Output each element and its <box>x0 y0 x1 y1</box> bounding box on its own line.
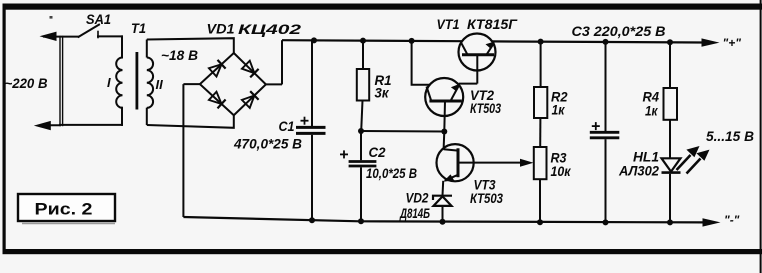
svg-text:II: II <box>156 77 164 92</box>
svg-text:T1: T1 <box>131 20 146 36</box>
svg-text:470,0*25 В: 470,0*25 В <box>233 137 302 152</box>
svg-text:АЛ302: АЛ302 <box>618 163 659 179</box>
svg-text:5...15 В: 5...15 В <box>706 129 754 144</box>
svg-text:Рис. 2: Рис. 2 <box>35 200 93 219</box>
svg-text:C1: C1 <box>279 118 295 134</box>
svg-text:~220 В: ~220 В <box>5 76 48 91</box>
svg-text:VD1: VD1 <box>207 21 235 37</box>
svg-text:Д814Б: Д814Б <box>399 205 430 221</box>
svg-text:~18 В: ~18 В <box>161 48 198 63</box>
svg-text:VD2: VD2 <box>406 190 429 206</box>
svg-text:C2: C2 <box>369 144 386 160</box>
svg-text:10,0*25 В: 10,0*25 В <box>366 166 417 181</box>
svg-text:1к: 1к <box>552 102 566 118</box>
svg-text:I: I <box>107 75 111 90</box>
svg-text:С3 220,0*25 В: С3 220,0*25 В <box>572 24 666 39</box>
svg-text:VT1: VT1 <box>437 16 460 32</box>
svg-text:КТ815Г: КТ815Г <box>467 16 518 32</box>
svg-text:10к: 10к <box>551 163 572 179</box>
svg-text:"-": "-" <box>724 213 740 227</box>
svg-text:1к: 1к <box>645 103 658 119</box>
svg-text:КЦ402: КЦ402 <box>238 21 301 37</box>
svg-text:SA1: SA1 <box>86 11 111 27</box>
svg-text:КТ503: КТ503 <box>470 100 501 116</box>
svg-text:"+": "+" <box>723 36 742 50</box>
svg-text:3к: 3к <box>375 85 390 101</box>
svg-text:КТ503: КТ503 <box>470 190 503 206</box>
